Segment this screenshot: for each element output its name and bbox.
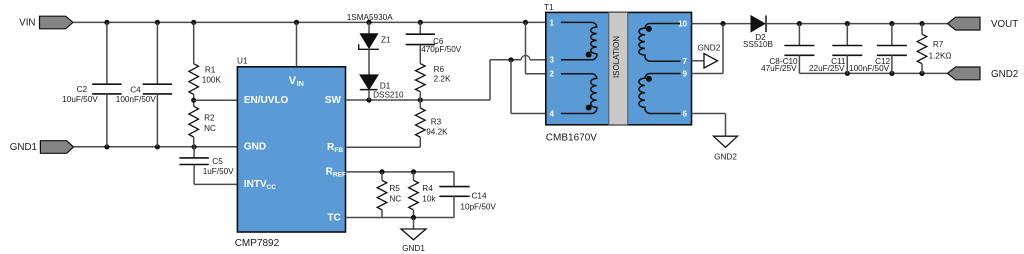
svg-text:3: 3 bbox=[550, 56, 555, 65]
svg-text:1SMA5930A: 1SMA5930A bbox=[347, 13, 394, 22]
svg-text:R4: R4 bbox=[422, 184, 433, 193]
svg-text:2: 2 bbox=[550, 70, 555, 79]
svg-text:10uF/50V: 10uF/50V bbox=[62, 95, 98, 104]
svg-text:470pF/50V: 470pF/50V bbox=[421, 45, 462, 54]
svg-text:GND2: GND2 bbox=[698, 43, 721, 52]
svg-text:4: 4 bbox=[550, 109, 555, 118]
svg-text:IN: IN bbox=[297, 81, 304, 88]
svg-text:10: 10 bbox=[678, 19, 687, 28]
svg-text:T1: T1 bbox=[544, 3, 554, 12]
svg-text:100nF/50V: 100nF/50V bbox=[849, 64, 890, 73]
svg-text:R3: R3 bbox=[431, 118, 442, 127]
svg-text:22uF/25V: 22uF/25V bbox=[809, 64, 845, 73]
svg-text:GND2: GND2 bbox=[991, 69, 1018, 80]
svg-text:GND: GND bbox=[244, 141, 266, 152]
svg-text:V: V bbox=[289, 75, 297, 87]
svg-text:NC: NC bbox=[204, 124, 216, 133]
svg-text:6: 6 bbox=[683, 109, 688, 118]
svg-text:100K: 100K bbox=[202, 76, 222, 85]
svg-text:R2: R2 bbox=[204, 114, 215, 123]
svg-text:CMP7892: CMP7892 bbox=[235, 238, 280, 249]
svg-text:VIN: VIN bbox=[19, 18, 35, 29]
svg-text:47uF/25V: 47uF/25V bbox=[761, 64, 797, 73]
svg-text:R6: R6 bbox=[434, 65, 445, 74]
svg-text:9: 9 bbox=[683, 69, 688, 78]
svg-text:ISOLATION: ISOLATION bbox=[612, 36, 621, 78]
svg-text:TC: TC bbox=[327, 212, 340, 223]
svg-text:GND1: GND1 bbox=[10, 142, 37, 153]
svg-text:GND2: GND2 bbox=[714, 153, 737, 162]
svg-text:C14: C14 bbox=[472, 192, 487, 201]
svg-text:DSS210: DSS210 bbox=[373, 91, 404, 100]
svg-text:C4: C4 bbox=[130, 86, 141, 95]
svg-text:R5: R5 bbox=[389, 184, 400, 193]
svg-text:7: 7 bbox=[683, 57, 688, 66]
svg-text:U1: U1 bbox=[237, 57, 248, 66]
svg-text:FB: FB bbox=[334, 147, 343, 154]
svg-text:REF: REF bbox=[333, 172, 346, 179]
svg-text:NC: NC bbox=[389, 194, 401, 203]
svg-text:10pF/50V: 10pF/50V bbox=[460, 203, 496, 212]
svg-text:10k: 10k bbox=[422, 194, 436, 203]
svg-text:94.2K: 94.2K bbox=[426, 128, 448, 137]
svg-text:100nF/50V: 100nF/50V bbox=[116, 95, 157, 104]
svg-text:1: 1 bbox=[550, 18, 555, 27]
svg-text:INTV: INTV bbox=[244, 179, 267, 190]
svg-text:SS510B: SS510B bbox=[743, 40, 774, 49]
svg-text:EN/UVLO: EN/UVLO bbox=[244, 95, 289, 106]
svg-text:VOUT: VOUT bbox=[991, 19, 1018, 30]
svg-text:D1: D1 bbox=[380, 81, 391, 90]
svg-text:R1: R1 bbox=[205, 66, 216, 75]
svg-text:R7: R7 bbox=[933, 40, 944, 49]
svg-text:1uF/50V: 1uF/50V bbox=[203, 167, 234, 176]
svg-text:GND1: GND1 bbox=[402, 244, 425, 253]
svg-text:CMB1670V: CMB1670V bbox=[546, 132, 597, 143]
svg-text:C2: C2 bbox=[77, 85, 88, 94]
svg-text:1.2KΩ: 1.2KΩ bbox=[929, 51, 952, 60]
svg-text:2.2K: 2.2K bbox=[434, 74, 451, 83]
svg-text:SW: SW bbox=[325, 95, 342, 106]
svg-text:CC: CC bbox=[267, 184, 277, 191]
svg-text:C5: C5 bbox=[212, 157, 223, 166]
svg-text:Z1: Z1 bbox=[381, 35, 391, 44]
